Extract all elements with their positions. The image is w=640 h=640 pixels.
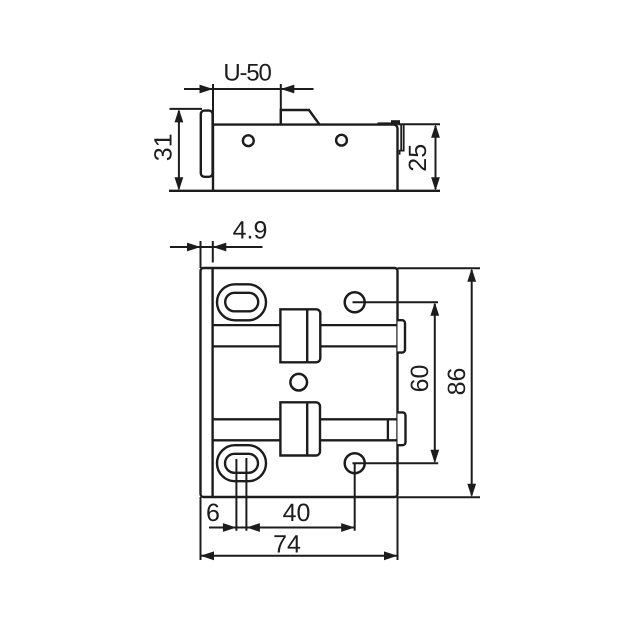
svg-text:60: 60 [406, 365, 434, 393]
bottom bar [213, 418, 398, 420]
svg-text:40: 40 [283, 499, 311, 527]
right slot detail [401, 125, 404, 151]
body bottom long line [169, 190, 440, 192]
line left of bump [378, 122, 392, 124]
step on top [281, 110, 320, 125]
dimension U-50 [184, 84, 314, 125]
top-right filled bump [391, 120, 400, 124]
arrow left-pointing at x=280.8 [281, 85, 295, 94]
dimension 60 [434, 304, 436, 462]
dimension 74 [201, 497, 398, 560]
ext lines from circles [353, 302, 439, 530]
svg-text:25: 25 [404, 144, 432, 172]
plate outline [201, 268, 398, 497]
svg-text:6: 6 [206, 499, 220, 527]
svg-text:74: 74 [273, 531, 301, 559]
top bar [213, 324, 398, 326]
body outline [213, 125, 398, 191]
dimension 25 [398, 124, 441, 189]
hole right [336, 135, 347, 146]
inner left line [211, 268, 213, 497]
arrow right-pointing at x=213 [200, 85, 214, 94]
left rounded tab [201, 111, 213, 177]
ext line left [212, 84, 214, 125]
ext line right [280, 84, 282, 125]
dim line [184, 88, 314, 90]
svg-text:31: 31 [150, 133, 178, 161]
dimension 31 [170, 109, 203, 189]
top oval slot [217, 284, 266, 320]
svg-text:86: 86 [443, 368, 471, 396]
top block [280, 309, 320, 362]
top right tab [398, 320, 406, 352]
bottom oval slot [217, 445, 266, 481]
bottom right tab [398, 412, 406, 445]
dimension 6 / 40 [209, 527, 355, 529]
dimension 86 [398, 268, 481, 497]
vertical lines through bottom oval (ext for 6) [235, 459, 237, 531]
small circles [345, 292, 365, 312]
svg-text:4.9: 4.9 [233, 217, 268, 245]
svg-text:U-50: U-50 [223, 60, 271, 87]
hole left [243, 135, 254, 146]
bottom block [280, 402, 320, 455]
dimension 4.9 [170, 241, 263, 268]
